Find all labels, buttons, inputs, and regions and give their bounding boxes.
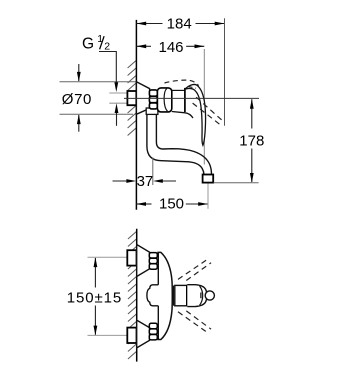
body back edge (bottom view)	[157, 252, 159, 339]
handle block (bottom view)	[175, 285, 187, 305]
dim 146 line	[136, 45, 204, 47]
spout tube	[147, 114, 212, 174]
handle knob (bottom view)	[187, 285, 207, 307]
dim 178 top arrow	[250, 99, 254, 109]
svg-text:G: G	[82, 36, 94, 53]
dashed swing lines lower (bottom view)	[178, 311, 211, 333]
dim 150±15 bottom arrow	[94, 326, 98, 336]
faucet body (side view)	[157, 88, 171, 112]
knob seam arc	[200, 286, 203, 305]
dim 150 line	[136, 203, 208, 205]
dim 150±15 top extension line	[88, 256, 128, 258]
dim 37 arrows and text	[113, 180, 177, 182]
dim 146 right extension line	[203, 49, 205, 165]
dim 150 right extension line	[207, 184, 209, 209]
svg-text:178: 178	[239, 132, 264, 149]
knob slit	[200, 293, 202, 299]
upper connection square (bottom view)	[127, 250, 136, 265]
svg-text:Ø70: Ø70	[62, 91, 92, 108]
dim 146 right arrow	[195, 44, 205, 48]
lower union nut (bottom view)	[149, 323, 157, 340]
dim 150±15 bottom extension line	[88, 334, 128, 336]
dim 184 line	[136, 23, 224, 25]
handle base (side view)	[172, 89, 185, 91]
body front arc (bottom view)	[157, 252, 172, 339]
dim 178 line	[251, 99, 253, 182]
svg-text:146: 146	[158, 39, 183, 56]
lever dashed up position inner stroke	[189, 87, 197, 89]
spout collar	[146, 108, 158, 114]
dim 37 right extension line	[152, 158, 154, 186]
union nut (side view)	[149, 90, 157, 109]
dim Ø70 bottom arrow	[77, 114, 81, 131]
handle divider (bottom view)	[186, 285, 188, 307]
connection nipple square (side view)	[127, 91, 136, 105]
dim 150±15 line	[94, 258, 96, 335]
lower connection square (bottom view)	[127, 328, 136, 343]
cartridge seam arc	[164, 88, 167, 111]
svg-text:150: 150	[159, 195, 184, 212]
handle neck seam (bottom view)	[173, 286, 175, 306]
svg-text:184: 184	[167, 16, 192, 33]
upper escutcheon cone (bottom view)	[137, 245, 150, 277]
dim G1/2 leader line with down arrow	[99, 52, 118, 93]
dim 146 left arrow	[136, 44, 146, 48]
wall line (side view)	[135, 20, 137, 210]
wall (bottom view) hatching	[128, 232, 136, 360]
lever (solid position)	[185, 84, 206, 145]
dim 150 left arrow	[136, 202, 146, 206]
upper union nut (bottom view)	[149, 253, 157, 270]
svg-text:37: 37	[137, 173, 154, 190]
wall line (bottom view)	[136, 229, 138, 362]
dim 178 bottom extension line	[214, 182, 259, 184]
lever dashed up position	[165, 80, 199, 85]
dashed swing lines upper (bottom view)	[178, 259, 211, 280]
dim 150 right arrow	[198, 202, 208, 206]
lower escutcheon cone (bottom view)	[137, 320, 150, 348]
dim G1/2 bottom up arrow	[115, 103, 119, 126]
centerline	[124, 97, 259, 99]
dim 184 right extension line	[224, 18, 226, 126]
body center bump (bottom view)	[147, 285, 158, 306]
dim 184 left arrow	[136, 22, 146, 26]
spout aerator	[203, 175, 214, 183]
dim 150±15 top arrow	[94, 257, 98, 267]
escutcheon cone (side view)	[136, 82, 149, 115]
supply pipe G1/2 behind wall	[109, 93, 127, 103]
dim Ø70 top arrow	[77, 64, 81, 82]
lever dashed swing lines	[193, 97, 225, 126]
dim Ø70 top extension line	[60, 81, 137, 83]
svg-text:2: 2	[104, 41, 110, 53]
dim 184 right arrow	[215, 22, 225, 26]
wall (side view) hatching	[128, 61, 137, 136]
svg-text:150±15: 150±15	[67, 290, 122, 307]
dim Ø70 bottom extension line	[60, 113, 134, 115]
knob tip circle	[205, 291, 214, 300]
dim 178 bottom arrow	[250, 173, 254, 183]
